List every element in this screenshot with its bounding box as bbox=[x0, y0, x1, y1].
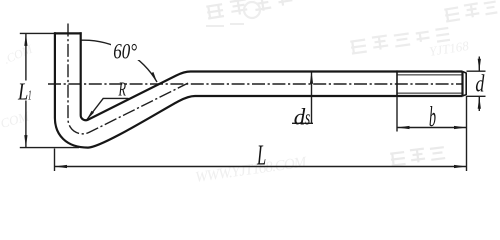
svg-text:b: b bbox=[429, 102, 436, 133]
svg-text:L: L bbox=[256, 140, 266, 171]
svg-text:60°: 60° bbox=[113, 39, 137, 64]
svg-text:d: d bbox=[294, 104, 306, 129]
svg-text:s: s bbox=[305, 105, 310, 130]
svg-text:1: 1 bbox=[28, 89, 32, 104]
svg-text:L: L bbox=[17, 79, 28, 106]
svg-text:d: d bbox=[475, 71, 485, 98]
svg-text:R: R bbox=[118, 80, 126, 101]
